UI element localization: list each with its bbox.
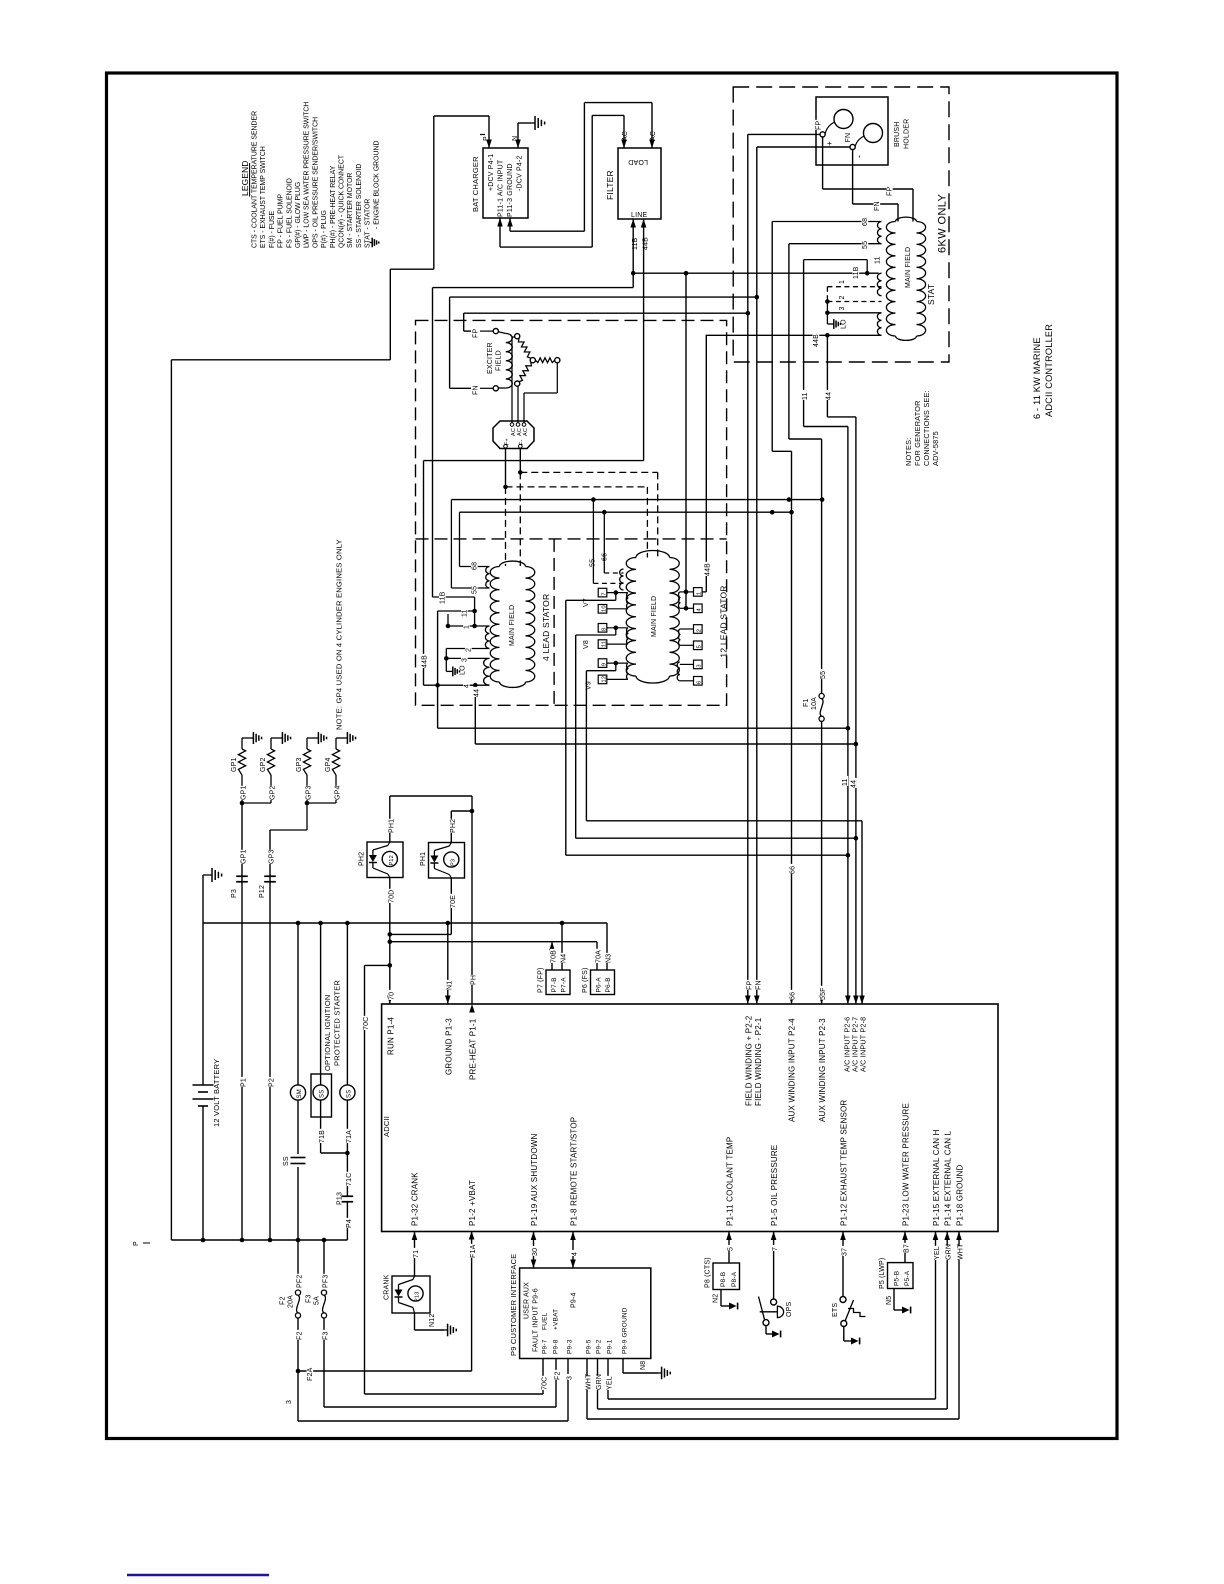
svg-text:P1-32 CRANK: P1-32 CRANK bbox=[411, 1172, 420, 1226]
svg-text:5A: 5A bbox=[314, 1296, 321, 1305]
second starter solenoid SS bbox=[346, 923, 348, 1085]
svg-text:AUX WINDING INPUT P2-3: AUX WINDING INPUT P2-3 bbox=[818, 1018, 827, 1122]
wire N4 from P7 to ground bus bbox=[561, 923, 563, 970]
svg-text:1: 1 bbox=[697, 592, 703, 595]
6kw stat main field coil bbox=[886, 222, 895, 337]
svg-text:5: 5 bbox=[728, 1247, 735, 1251]
svg-text:70B: 70B bbox=[551, 950, 558, 963]
svg-text:P11-3 GROUND: P11-3 GROUND bbox=[507, 163, 514, 217]
svg-text:66: 66 bbox=[790, 992, 797, 1000]
glow plug bus GP1-GP2 bbox=[242, 802, 271, 804]
glow plug resistor GP4 bbox=[332, 749, 339, 775]
svg-text:GP1: GP1 bbox=[241, 849, 248, 864]
wire lead below GP4 bbox=[335, 775, 337, 803]
wire YEL bbox=[607, 1359, 609, 1400]
svg-text:P5 (LWP): P5 (LWP) bbox=[879, 1258, 886, 1289]
svg-text:FP: FP bbox=[816, 121, 823, 130]
connector box P7 (FP) bbox=[546, 970, 570, 995]
svg-text:P12: P12 bbox=[389, 855, 395, 865]
svg-text:GROUND P1-3: GROUND P1-3 bbox=[444, 1018, 453, 1075]
svg-text:2: 2 bbox=[697, 629, 703, 632]
svg-text:66: 66 bbox=[602, 553, 609, 561]
svg-text:6: 6 bbox=[697, 681, 703, 684]
svg-text:4: 4 bbox=[697, 608, 703, 612]
svg-text:P9-8: P9-8 bbox=[553, 1339, 560, 1354]
svg-text:P5-B: P5-B bbox=[894, 1271, 901, 1286]
svg-text:GRN: GRN bbox=[946, 1244, 953, 1260]
svg-text:PH2: PH2 bbox=[450, 819, 457, 833]
svg-text:QCON(#) - QUICK CONNECT: QCON(#) - QUICK CONNECT bbox=[339, 154, 346, 248]
svg-text:GP2: GP2 bbox=[260, 757, 267, 772]
svg-text:GP2: GP2 bbox=[270, 785, 277, 800]
svg-text:10A: 10A bbox=[811, 697, 818, 710]
filter box bbox=[618, 148, 661, 219]
svg-text:N: N bbox=[512, 136, 519, 141]
svg-text:+VBAT: +VBAT bbox=[553, 1309, 560, 1330]
svg-text:FN: FN bbox=[845, 133, 852, 143]
svg-text:N12: N12 bbox=[429, 1314, 436, 1327]
wire F2A branch to ADCII +VBAT bbox=[296, 1369, 301, 1374]
svg-text:F(#) - FUSE: F(#) - FUSE bbox=[269, 210, 276, 248]
legend engine block ground row bbox=[370, 242, 373, 244]
ETS switch bbox=[842, 1232, 844, 1297]
svg-text:44: 44 bbox=[851, 780, 858, 788]
svg-text:LWP - LOW SEA WATER PRESSURE S: LWP - LOW SEA WATER PRESSURE SWITCH bbox=[304, 102, 311, 248]
bat charger box bbox=[483, 148, 528, 218]
svg-text:- ENGINE BLOCK GROUND: - ENGINE BLOCK GROUND bbox=[373, 141, 380, 229]
svg-text:FILTER: FILTER bbox=[605, 170, 615, 200]
svg-text:71C: 71C bbox=[346, 1173, 353, 1186]
svg-text:NOTE: GP4 USED ON 4 CYLINDER E: NOTE: GP4 USED ON 4 CYLINDER ENGINES ONL… bbox=[335, 539, 344, 730]
wire lead below GP1 bbox=[241, 775, 243, 803]
12 lead right tap coils bbox=[678, 592, 679, 608]
6kw only dashed box bbox=[733, 87, 949, 362]
svg-text:71B: 71B bbox=[319, 1130, 326, 1143]
wire 3 tap of 6kw with LO ground bbox=[827, 312, 881, 314]
svg-text:P12: P12 bbox=[259, 885, 266, 898]
connector box P8 (CTS) bbox=[713, 1263, 740, 1290]
wire 70C branch bbox=[365, 964, 390, 966]
svg-text:V7: V7 bbox=[583, 598, 590, 607]
svg-text:GP(#) - GLOW PLUG: GP(#) - GLOW PLUG bbox=[295, 182, 302, 248]
svg-text:SS: SS bbox=[283, 1156, 290, 1166]
wire 44 jog to ADCII P2-7 bbox=[826, 335, 828, 417]
svg-text:GRN: GRN bbox=[596, 1374, 603, 1390]
svg-text:11: 11 bbox=[875, 256, 882, 264]
wire 44B tap of 6kw bbox=[706, 334, 882, 336]
svg-text:PH(#) - PRE-HEAT RELAY: PH(#) - PRE-HEAT RELAY bbox=[330, 165, 337, 248]
svg-text:12: 12 bbox=[601, 676, 607, 683]
wire 2 terminal bbox=[446, 648, 489, 650]
wire 70D from relay bbox=[389, 878, 391, 1005]
svg-text:P8 (CTS): P8 (CTS) bbox=[705, 1257, 712, 1288]
svg-text:P3: P3 bbox=[450, 859, 456, 866]
svg-text:11: 11 bbox=[462, 609, 469, 617]
wire 11 jog to ADCII P2-6 bbox=[803, 260, 805, 427]
battery ground bbox=[202, 875, 204, 923]
svg-text:P1-5 OIL PRESSURE: P1-5 OIL PRESSURE bbox=[770, 1145, 779, 1226]
svg-text:F2: F2 bbox=[280, 1296, 287, 1305]
svg-text:OPS - OIL PRESSURE SENDER/SWIT: OPS - OIL PRESSURE SENDER/SWITCH bbox=[312, 117, 319, 248]
svg-text:3: 3 bbox=[839, 306, 846, 310]
svg-text:FP: FP bbox=[473, 329, 480, 338]
6kw aux coil middle bbox=[877, 273, 881, 296]
wire N1 to ADCII ground P1-3 bbox=[447, 923, 449, 1004]
svg-text:F2A: F2A bbox=[307, 1367, 314, 1381]
wire 55 of 6kw bbox=[789, 243, 882, 245]
svg-text:F1: F1 bbox=[803, 698, 810, 707]
svg-text:8: 8 bbox=[601, 628, 607, 631]
svg-text:MAIN FIELD: MAIN FIELD bbox=[509, 605, 516, 646]
svg-text:FP - FUEL PUMP: FP - FUEL PUMP bbox=[278, 194, 285, 248]
svg-text:P4: P4 bbox=[346, 1219, 353, 1228]
svg-text:4: 4 bbox=[572, 1252, 579, 1256]
svg-text:N2: N2 bbox=[713, 1294, 720, 1303]
svg-text:P9-9 GROUND: P9-9 GROUND bbox=[622, 1307, 629, 1354]
svg-text:3: 3 bbox=[697, 664, 703, 667]
OPS switch bbox=[773, 1232, 775, 1300]
glow plug resistor GP1 bbox=[238, 749, 245, 775]
brush circle 1 bbox=[834, 110, 853, 129]
wire 11 44 labels near ADCII bbox=[842, 776, 849, 786]
glow plug resistor GP3 bbox=[303, 749, 310, 775]
svg-text:CONNECTIONS SEE:: CONNECTIONS SEE: bbox=[922, 390, 931, 466]
bus 55 horizontal bbox=[451, 499, 822, 501]
svg-text:FAULT INPUT P9-6: FAULT INPUT P9-6 bbox=[533, 1288, 540, 1352]
wire YEL to P1-15 bbox=[935, 1232, 937, 1400]
svg-text:V8: V8 bbox=[583, 640, 590, 649]
svg-text:6 - 11 KW MARINE: 6 - 11 KW MARINE bbox=[1032, 337, 1042, 419]
wire brush FP down to 6kw stat bbox=[822, 137, 824, 189]
brush circle 2 bbox=[864, 124, 883, 143]
wire GP1 to P3 connector bbox=[241, 803, 243, 1240]
svg-text:11: 11 bbox=[601, 641, 607, 647]
wire 11B from filter LINE bbox=[632, 219, 634, 273]
bus 66 horizontal bbox=[460, 511, 792, 513]
wire PH to ADCII P1-1 bbox=[471, 796, 473, 1004]
wire N12 ground from crank relay bbox=[414, 1313, 416, 1330]
svg-text:55: 55 bbox=[820, 671, 827, 679]
connector P13-P4 bbox=[342, 1195, 354, 1197]
svg-text:2: 2 bbox=[839, 295, 846, 299]
6kw aux coil top 68-55 bbox=[877, 222, 881, 244]
wire P2 label bbox=[268, 1077, 275, 1087]
svg-text:10: 10 bbox=[601, 605, 607, 612]
svg-text:55: 55 bbox=[590, 559, 597, 567]
wire 55 drop from bus bbox=[592, 500, 594, 584]
svg-text:P13: P13 bbox=[415, 1292, 421, 1302]
pre-heat relay PH2/P12 box bbox=[367, 842, 403, 878]
svg-text:F2: F2 bbox=[297, 1331, 304, 1340]
svg-text:P7 (FP): P7 (FP) bbox=[538, 967, 545, 993]
svg-text:N1: N1 bbox=[446, 981, 453, 990]
svg-text:4: 4 bbox=[464, 684, 471, 688]
svg-text:P9-3: P9-3 bbox=[567, 1339, 574, 1354]
svg-text:P9-1: P9-1 bbox=[607, 1339, 614, 1354]
svg-text:SS - STARTER SOLENOID: SS - STARTER SOLENOID bbox=[356, 164, 363, 248]
svg-text:P: P bbox=[133, 1241, 140, 1246]
svg-text:STAT - STATOR: STAT - STATOR bbox=[365, 199, 372, 248]
svg-text:44B: 44B bbox=[643, 237, 650, 250]
wire 55F to ADCII P2-3 bbox=[821, 721, 823, 1004]
svg-text:7: 7 bbox=[601, 592, 607, 595]
svg-text:11B: 11B bbox=[440, 591, 447, 604]
4 lead aux coil 1-2 bbox=[485, 626, 489, 649]
svg-text:6KW ONLY: 6KW ONLY bbox=[937, 194, 949, 253]
wire F3 to customer interface P9-8 bbox=[324, 1406, 556, 1408]
svg-text:44: 44 bbox=[474, 689, 481, 697]
ADCII controller box bbox=[382, 1004, 998, 1232]
svg-text:GP3: GP3 bbox=[296, 757, 303, 772]
wire 1 terminal bbox=[448, 625, 490, 627]
svg-text:MAIN FIELD: MAIN FIELD bbox=[651, 596, 658, 637]
wire WHT bbox=[586, 1359, 588, 1420]
wire FP FN labels near ADCII bbox=[746, 980, 753, 990]
svg-text:LOAD: LOAD bbox=[628, 158, 648, 165]
svg-text:P11-1 A/C INPUT: P11-1 A/C INPUT bbox=[498, 159, 505, 217]
wire N5 ground from P5 bbox=[893, 1289, 895, 1311]
svg-text:P3: P3 bbox=[231, 889, 238, 898]
svg-text:GP3: GP3 bbox=[306, 785, 313, 800]
svg-text:44B: 44B bbox=[422, 655, 429, 668]
svg-text:V9: V9 bbox=[586, 681, 593, 690]
wire 66 drop from bus bbox=[603, 512, 605, 573]
12 lead right boxes 1 4 2 5 3 6 bbox=[694, 588, 703, 597]
svg-text:12 LEAD STATOR: 12 LEAD STATOR bbox=[719, 585, 729, 657]
svg-text:PRE-HEAT P1-1: PRE-HEAT P1-1 bbox=[469, 1018, 478, 1080]
svg-text:MAIN FIELD: MAIN FIELD bbox=[905, 247, 912, 288]
svg-text:P1-11 COOLANT TEMP: P1-11 COOLANT TEMP bbox=[726, 1137, 735, 1226]
wire 3 terminal with LO ground bbox=[446, 657, 489, 659]
svg-text:55: 55 bbox=[862, 241, 869, 249]
OPS ground bbox=[765, 1326, 767, 1334]
svg-text:BRUSH: BRUSH bbox=[894, 121, 901, 147]
svg-text:BAT CHARGER: BAT CHARGER bbox=[471, 156, 480, 212]
svg-text:P1-12 EXHAUST TEMP SENSOR: P1-12 EXHAUST TEMP SENSOR bbox=[840, 1100, 849, 1226]
svg-text:PH: PH bbox=[471, 975, 478, 985]
svg-text:PH2: PH2 bbox=[359, 852, 366, 866]
svg-text:F3: F3 bbox=[323, 1331, 330, 1340]
svg-text:GP1: GP1 bbox=[241, 785, 248, 800]
4 lead main field coil bbox=[490, 567, 499, 683]
wire 44B from 12 lead box 1 bbox=[702, 591, 706, 593]
dots on ground bus bbox=[296, 921, 301, 926]
svg-text:AC: AC bbox=[650, 131, 657, 141]
svg-text:SM - STARTER MOTOR: SM - STARTER MOTOR bbox=[347, 173, 354, 248]
starter motor SM bbox=[297, 923, 299, 1085]
svg-text:ADCII CONTROLLER: ADCII CONTROLLER bbox=[1044, 324, 1054, 417]
wire N8 ground bbox=[622, 1359, 624, 1374]
svg-text:ADCII: ADCII bbox=[382, 1116, 391, 1137]
wire 71C label bbox=[345, 1172, 352, 1186]
svg-text:OPTIONAL IGNITION: OPTIONAL IGNITION bbox=[323, 995, 332, 1071]
svg-text:37: 37 bbox=[842, 1248, 849, 1256]
filter AC wire to P11-3 bbox=[651, 103, 653, 148]
svg-text:P9-4: P9-4 bbox=[571, 1292, 578, 1308]
svg-text:71: 71 bbox=[413, 1250, 420, 1258]
svg-text:LINE: LINE bbox=[631, 212, 647, 219]
wire 70C into P9-7 bbox=[542, 1359, 544, 1395]
wire P net from bat charger to battery bus bbox=[434, 115, 489, 117]
svg-text:B7: B7 bbox=[904, 1244, 911, 1253]
wire lead below GP3 bbox=[306, 775, 308, 803]
wire N pin of bat charger bbox=[517, 123, 519, 148]
4 lead aux coil 3-4 bbox=[484, 658, 490, 685]
svg-text:70: 70 bbox=[388, 992, 395, 1000]
wire lead below GP2 bbox=[270, 775, 272, 803]
svg-text:F3: F3 bbox=[306, 1294, 313, 1303]
connector P12 bbox=[264, 875, 276, 877]
wire 5 coolant temp to P8 bbox=[728, 1232, 730, 1264]
wire N2 ground from P8 bbox=[720, 1290, 722, 1307]
svg-text:P6 (FS): P6 (FS) bbox=[582, 967, 589, 993]
svg-text:F1A: F1A bbox=[470, 1244, 477, 1258]
battery 12V symbol bbox=[202, 923, 204, 1085]
svg-text:FS - FUEL SOLENOID: FS - FUEL SOLENOID bbox=[286, 178, 293, 248]
ETS ground bbox=[843, 1327, 845, 1342]
svg-text:70E: 70E bbox=[450, 895, 457, 908]
wire GRN to P1-14 bbox=[946, 1232, 948, 1410]
ground at bat charger N bbox=[518, 122, 531, 124]
svg-text:N8: N8 bbox=[640, 1361, 647, 1370]
svg-text:-DCV P4-2: -DCV P4-2 bbox=[517, 155, 524, 191]
SS contact bbox=[297, 1100, 299, 1154]
svg-text:5: 5 bbox=[697, 645, 703, 648]
svg-text:3: 3 bbox=[567, 1376, 574, 1380]
wire P1 label bbox=[240, 1077, 247, 1087]
svg-text:71A: 71A bbox=[346, 1130, 353, 1143]
wire 4 to ADCII P1-8 bbox=[572, 1232, 574, 1269]
exciter field coil bbox=[498, 332, 506, 334]
svg-text:OPS: OPS bbox=[786, 1301, 793, 1317]
wire 44B from filter LINE bbox=[643, 219, 645, 461]
fuse F2 20A chain bbox=[297, 1240, 299, 1276]
wire V9 bbox=[615, 663, 617, 671]
svg-text:LEGEND: LEGEND bbox=[240, 160, 250, 196]
svg-text:A/C INPUT P2-8: A/C INPUT P2-8 bbox=[858, 1017, 867, 1072]
wire brush FP to P2-2 bbox=[748, 133, 820, 135]
wire 11 long run to ADCII bbox=[437, 611, 439, 728]
svg-text:20A: 20A bbox=[288, 1295, 295, 1308]
wire B7 low water pressure to P5 bbox=[904, 1232, 906, 1263]
filter AC wire to P11-1 bbox=[623, 115, 625, 148]
svg-text:66: 66 bbox=[790, 866, 797, 874]
svg-text:YEL: YEL bbox=[607, 1376, 614, 1390]
stator dashed divider vertical bbox=[553, 539, 555, 705]
svg-text:P9 CUSTOMER INTERFACE: P9 CUSTOMER INTERFACE bbox=[509, 1254, 518, 1356]
svg-text:PH1: PH1 bbox=[388, 819, 395, 833]
svg-text:RUN P1-4: RUN P1-4 bbox=[386, 1017, 395, 1055]
svg-text:11B: 11B bbox=[853, 266, 860, 279]
svg-text:N5: N5 bbox=[886, 1296, 893, 1305]
wire 1 dashed tap of 6kw bbox=[827, 286, 881, 288]
svg-text:GP1: GP1 bbox=[231, 757, 238, 772]
wire 11 tap of 6kw bbox=[804, 259, 868, 261]
page border frame bbox=[107, 73, 1118, 1439]
svg-text:USER AUX: USER AUX bbox=[524, 1282, 531, 1319]
svg-text:FN: FN bbox=[473, 385, 480, 395]
svg-text:P1: P1 bbox=[241, 1078, 248, 1087]
wire 4 terminal bbox=[424, 684, 490, 686]
wire P4 to battery bus bbox=[346, 1202, 348, 1240]
glow plug resistor GP2 bbox=[267, 749, 274, 775]
footer hyperlink rule line bbox=[127, 1574, 269, 1576]
wire 68 of 4 lead stator bbox=[460, 566, 490, 568]
svg-text:YEL: YEL bbox=[934, 1246, 941, 1260]
svg-text:NOTES:: NOTES: bbox=[904, 438, 913, 466]
svg-text:P8-B: P8-B bbox=[720, 1272, 727, 1287]
QCON AC wires to Y winding bbox=[511, 337, 513, 423]
wire 44B jog bbox=[424, 460, 644, 462]
svg-text:N4: N4 bbox=[561, 954, 568, 963]
svg-text:P1-2 +VBAT: P1-2 +VBAT bbox=[468, 1180, 477, 1226]
wire F+ dashed to main fields bbox=[505, 449, 507, 487]
generator assembly dashed box bbox=[416, 320, 727, 705]
svg-text:P1-18 GROUND: P1-18 GROUND bbox=[956, 1164, 965, 1226]
stator dashed divider horizontal bbox=[416, 538, 727, 540]
4 lead aux coil 68-55 bbox=[486, 567, 490, 589]
svg-text:PH1: PH1 bbox=[420, 852, 427, 866]
svg-text:2: 2 bbox=[466, 648, 473, 652]
svg-text:1: 1 bbox=[839, 280, 846, 284]
svg-text:P1-19 AUX SHUTDOWN: P1-19 AUX SHUTDOWN bbox=[530, 1133, 539, 1226]
wire 70A to P6 bbox=[596, 942, 598, 970]
glow plug bus GP3-GP4 bbox=[307, 802, 336, 804]
wire GP3 to P12 connector bbox=[269, 830, 271, 1240]
svg-text:+DCV P4-1: +DCV P4-1 bbox=[488, 154, 495, 191]
svg-text:P1-8 REMOTE START/STOP: P1-8 REMOTE START/STOP bbox=[570, 1117, 579, 1226]
svg-text:ETS: ETS bbox=[832, 1303, 839, 1317]
wire FN long run bbox=[449, 297, 451, 388]
wire WHT to P1-18 bbox=[958, 1232, 960, 1420]
wire 71 from crank relay to ADCII bbox=[414, 1232, 416, 1277]
wire 71A bbox=[346, 1100, 348, 1196]
wire GRN bbox=[597, 1359, 599, 1410]
svg-text:+: + bbox=[825, 141, 834, 146]
svg-text:68: 68 bbox=[862, 218, 869, 226]
svg-text:STAT: STAT bbox=[926, 284, 936, 305]
wire P pin of bat charger bbox=[488, 116, 490, 148]
svg-text:P1-23 LOW WATER PRESSURE: P1-23 LOW WATER PRESSURE bbox=[902, 1103, 911, 1226]
12 lead phase tap boxes 7 10 8 11 9 12 bbox=[598, 588, 607, 597]
svg-text:1: 1 bbox=[464, 625, 471, 629]
wire 55 net to fuse F1 bbox=[789, 438, 822, 440]
wire 70E from relay bbox=[450, 878, 452, 934]
svg-text:3: 3 bbox=[286, 1400, 293, 1404]
svg-text:P7-B: P7-B bbox=[551, 977, 558, 992]
brush holder box bbox=[816, 97, 888, 165]
wire V8 bbox=[615, 628, 617, 635]
svg-text:FUEL: FUEL bbox=[542, 1312, 549, 1330]
svg-text:HOLDER: HOLDER bbox=[904, 119, 911, 149]
wire 70 label bbox=[388, 990, 395, 1000]
svg-text:AUX WINDING INPUT P2-4: AUX WINDING INPUT P2-4 bbox=[788, 1018, 797, 1122]
svg-text:30: 30 bbox=[532, 1248, 539, 1256]
wire 2 dashed tap of 6kw bbox=[827, 301, 881, 303]
svg-text:P5-A: P5-A bbox=[904, 1270, 911, 1286]
wire 11B tap label bbox=[853, 265, 860, 279]
ground bus drop to P6-B bbox=[606, 923, 608, 970]
svg-text:F2: F2 bbox=[555, 1371, 562, 1380]
svg-text:PF3: PF3 bbox=[323, 1275, 330, 1288]
svg-text:P7-A: P7-A bbox=[561, 977, 568, 993]
wires from boxes to tap coils bbox=[607, 592, 628, 594]
brush FN terminal bbox=[850, 144, 855, 149]
svg-text:EXCITER: EXCITER bbox=[487, 342, 494, 374]
svg-text:70C: 70C bbox=[363, 1017, 370, 1030]
wire V7 bbox=[615, 593, 617, 601]
wire 11B stub at 4 lead bbox=[433, 596, 475, 598]
